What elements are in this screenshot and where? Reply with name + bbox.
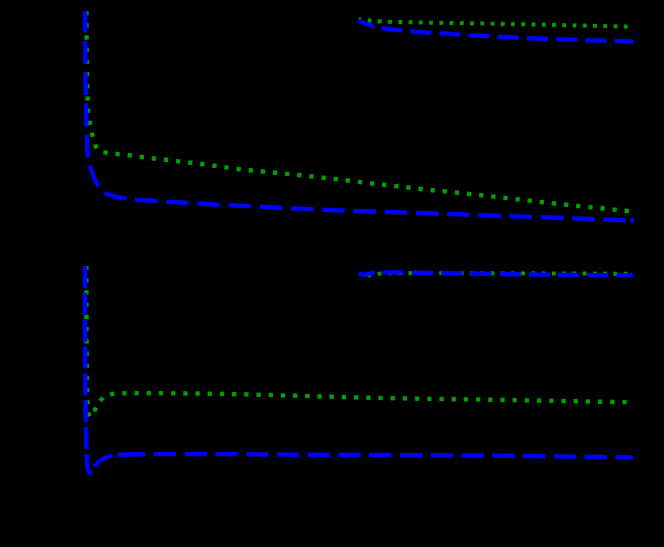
top subplot: blue dashed curve (steep knee, slow decline) [85, 11, 634, 221]
top-right green dotted curve [359, 19, 628, 26]
bottom-right blue dashed curve (flat) [359, 272, 634, 275]
top subplot: green dotted curve (steep knee, slow decline) [86, 11, 631, 211]
bottom-right green dotted curve (flat) [359, 273, 630, 275]
top-right blue dashed curve [359, 21, 634, 42]
bottom subplot: green dotted curve (dip then flat) [86, 266, 629, 417]
top blue curve right-edge dash stub [630, 218, 634, 223]
bottom subplot: blue dashed curve (dip then flat) [85, 265, 130, 472]
